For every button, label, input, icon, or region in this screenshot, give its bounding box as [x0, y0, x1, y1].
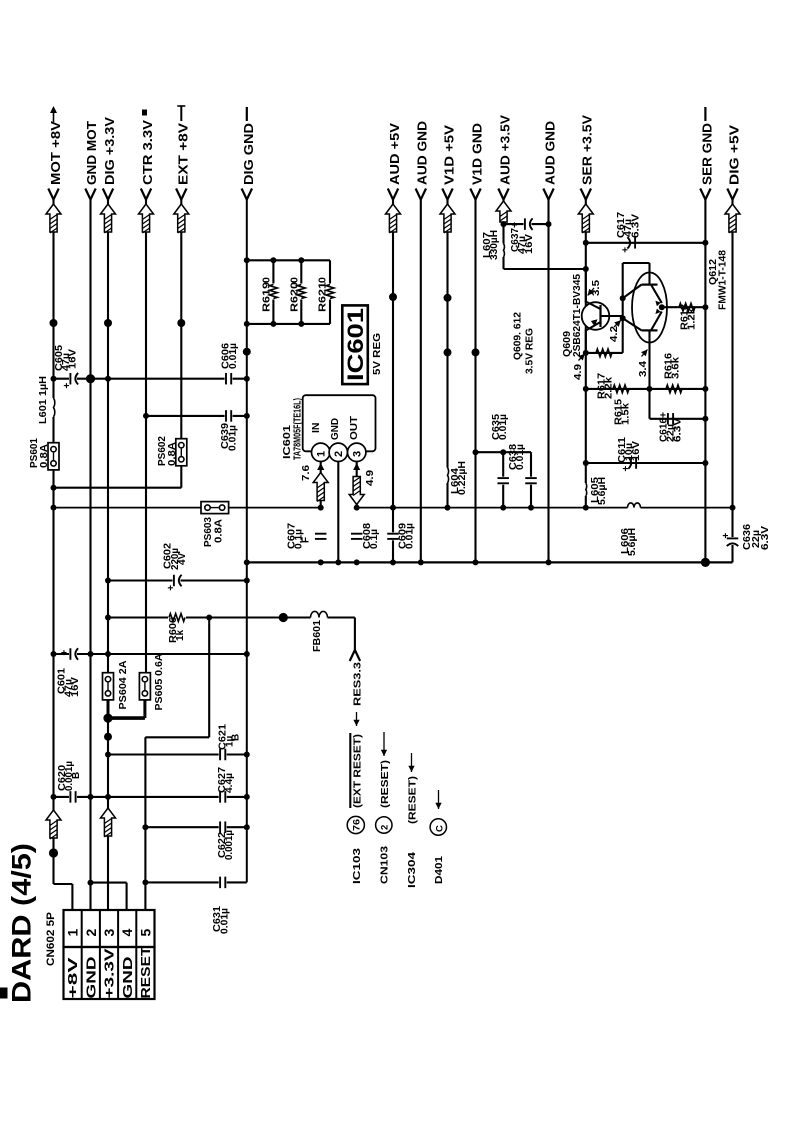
svg-text:0.01µ: 0.01µ — [220, 908, 231, 934]
svg-text:C: C — [434, 825, 445, 832]
svg-text:B: B — [231, 734, 242, 741]
svg-text:4.9: 4.9 — [364, 470, 376, 486]
svg-text:0: 0 — [261, 277, 273, 283]
svg-text:IC601: IC601 — [282, 424, 293, 459]
svg-text:Q609. 612: Q609. 612 — [512, 312, 524, 360]
svg-text:AUD +5V: AUD +5V — [388, 122, 402, 185]
svg-text:0.8A: 0.8A — [214, 519, 225, 543]
svg-text:(EXT RESET): (EXT RESET) — [352, 734, 364, 808]
svg-text:DARD (4/5): DARD (4/5) — [7, 843, 37, 1003]
svg-text:5.6µH: 5.6µH — [597, 477, 608, 505]
svg-text:4: 4 — [119, 929, 135, 937]
svg-text:+: + — [721, 533, 732, 539]
svg-text:0.01µ: 0.01µ — [228, 343, 239, 369]
svg-text:16V: 16V — [631, 441, 642, 461]
svg-text:330µH: 330µH — [489, 230, 500, 260]
svg-text:0.22µH: 0.22µH — [457, 461, 468, 495]
svg-text:DIG GND: DIG GND — [242, 123, 256, 185]
svg-text:EXT +8V: EXT +8V — [176, 122, 190, 185]
svg-text:0.8A: 0.8A — [167, 442, 178, 466]
svg-text:16V: 16V — [70, 677, 81, 697]
svg-text:IC304: IC304 — [406, 852, 418, 888]
svg-text:0: 0 — [317, 277, 329, 283]
svg-text:GND: GND — [329, 418, 341, 440]
svg-text:+: + — [60, 650, 71, 656]
svg-text:4.2: 4.2 — [608, 326, 620, 342]
svg-text:GND: GND — [83, 957, 98, 999]
svg-text:V1D +5V: V1D +5V — [442, 124, 456, 185]
svg-text:RESET: RESET — [138, 946, 153, 998]
svg-text:AUD GND: AUD GND — [543, 121, 557, 185]
svg-text:5: 5 — [137, 929, 153, 937]
svg-text:3: 3 — [352, 451, 364, 457]
svg-text:7.6: 7.6 — [300, 465, 312, 481]
svg-text:GND MOT: GND MOT — [85, 121, 99, 185]
svg-text:0.8A: 0.8A — [39, 444, 50, 468]
svg-text:MOT +8V: MOT +8V — [49, 120, 63, 185]
svg-text:0.001µ: 0.001µ — [224, 830, 235, 860]
svg-text:TA78M05F(TE16L): TA78M05F(TE16L) — [293, 398, 304, 460]
svg-text:CTR 3.3V: CTR 3.3V — [141, 119, 155, 185]
svg-text:R620: R620 — [289, 282, 301, 312]
svg-text:(RESET): (RESET) — [379, 760, 391, 808]
svg-text:5V REG: 5V REG — [371, 333, 383, 375]
svg-text:3.4: 3.4 — [637, 361, 649, 377]
svg-text:+: + — [621, 466, 632, 472]
svg-text:R619: R619 — [261, 282, 273, 312]
svg-text:D401: D401 — [433, 856, 445, 884]
svg-text:1.5k: 1.5k — [621, 403, 632, 425]
svg-text:CN602 5P: CN602 5P — [45, 912, 57, 966]
svg-text:IC601: IC601 — [343, 308, 368, 381]
svg-text:4.4µ: 4.4µ — [224, 773, 235, 793]
svg-text:L601 1µH: L601 1µH — [38, 376, 49, 424]
svg-text:3: 3 — [101, 929, 117, 937]
svg-text:RES3.3: RES3.3 — [352, 662, 364, 706]
svg-text:1: 1 — [65, 929, 81, 937]
svg-text:5.6µH: 5.6µH — [627, 528, 638, 556]
svg-text:V1D GND: V1D GND — [470, 123, 484, 185]
svg-text:0.01µ: 0.01µ — [405, 523, 416, 549]
svg-text:B: B — [71, 772, 82, 779]
svg-text:SER GND: SER GND — [700, 123, 714, 185]
svg-text:FMW1-T-148: FMW1-T-148 — [718, 250, 729, 310]
svg-text:CN103: CN103 — [379, 846, 391, 884]
svg-text:0.1µ: 0.1µ — [369, 529, 380, 549]
svg-text:1k: 1k — [175, 629, 186, 641]
svg-text:0: 0 — [289, 277, 301, 283]
svg-text:+: + — [62, 383, 73, 389]
svg-text:6.3V: 6.3V — [673, 418, 684, 442]
svg-text:4V: 4V — [177, 552, 188, 565]
svg-text:+: + — [620, 247, 631, 253]
svg-text:3.5V REG: 3.5V REG — [524, 328, 536, 374]
svg-text:(RESET): (RESET) — [407, 776, 419, 824]
svg-text:OUT: OUT — [348, 415, 360, 440]
svg-text:PS604 2A: PS604 2A — [118, 661, 129, 710]
svg-text:PS605 0.6A: PS605 0.6A — [154, 654, 165, 711]
svg-text:R621: R621 — [317, 282, 329, 312]
svg-text:AUD GND: AUD GND — [416, 121, 430, 185]
svg-text:2SB624T1-BV345: 2SB624T1-BV345 — [572, 274, 583, 357]
svg-text:2: 2 — [83, 929, 99, 937]
svg-text:16V: 16V — [524, 234, 535, 254]
svg-text:IC103: IC103 — [351, 848, 363, 884]
svg-text:AUD +3.5V: AUD +3.5V — [498, 114, 512, 185]
svg-text:SER +3.5V: SER +3.5V — [581, 114, 595, 185]
svg-text:+3.3V: +3.3V — [102, 948, 117, 998]
svg-text:16V: 16V — [67, 349, 78, 369]
svg-text:6.3V: 6.3V — [631, 214, 642, 238]
svg-text:3.6k: 3.6k — [671, 357, 682, 379]
svg-text:2: 2 — [380, 825, 391, 830]
svg-text:PS603: PS603 — [203, 517, 214, 547]
svg-text:4.9: 4.9 — [572, 364, 584, 380]
svg-text:0.01µ: 0.01µ — [515, 444, 526, 470]
svg-text:1: 1 — [316, 451, 328, 457]
svg-text:0.01µ: 0.01µ — [498, 414, 509, 440]
svg-text:76: 76 — [352, 819, 363, 831]
svg-text:+: + — [166, 585, 177, 591]
svg-text:6.3V: 6.3V — [760, 526, 771, 550]
svg-text:0.01µ: 0.01µ — [228, 425, 239, 451]
svg-text:FB601: FB601 — [312, 620, 323, 652]
svg-text:+8V: +8V — [65, 957, 80, 999]
svg-text:1.2k: 1.2k — [687, 308, 698, 330]
svg-text:DIG +3.3V: DIG +3.3V — [103, 116, 117, 185]
svg-text:GND: GND — [120, 957, 135, 999]
svg-text:3.5: 3.5 — [590, 280, 602, 296]
svg-text:2: 2 — [333, 451, 345, 457]
svg-text:F: F — [301, 537, 312, 543]
svg-text:IN: IN — [310, 423, 322, 434]
svg-text:DIG +5V: DIG +5V — [727, 124, 741, 185]
